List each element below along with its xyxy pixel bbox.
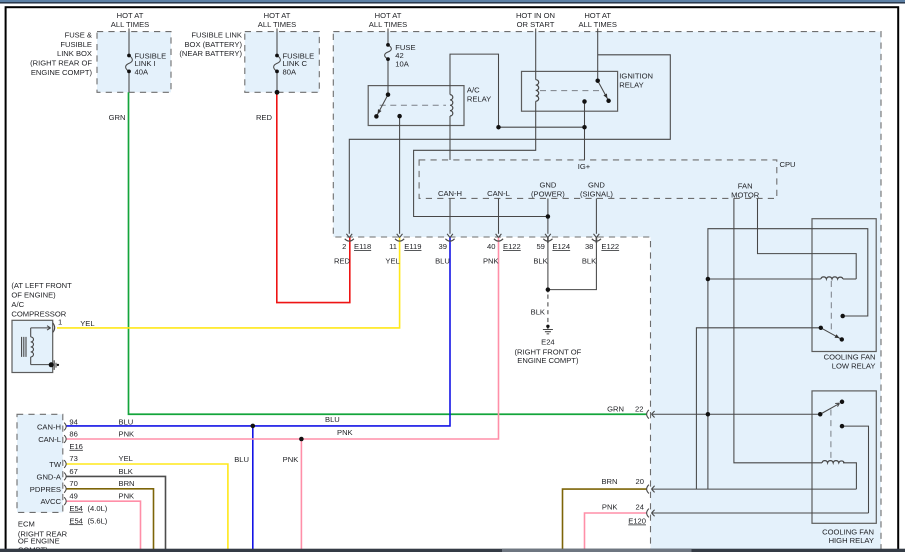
wire: ignition relay contact branch to pin 2 E118 (349, 55, 670, 234)
wire BLU: pin 39 CAN-H to ECM pin 94 (66, 238, 450, 426)
svg-text:HIGH RELAY: HIGH RELAY (829, 536, 874, 545)
svg-text:CAN-L: CAN-L (38, 435, 61, 444)
svg-text:E124: E124 (552, 242, 570, 251)
svg-text:2: 2 (342, 242, 346, 251)
svg-text:YEL: YEL (80, 319, 94, 328)
wire: GND(SIGNAL) from CPU to pin 38 E122 (595, 198, 597, 233)
svg-text:(NEAR BATTERY): (NEAR BATTERY) (179, 49, 242, 58)
A/C compressor pin 1 connector (53, 323, 55, 333)
wire BLK: pin 59 stub (547, 238, 549, 244)
svg-text:CAN-H: CAN-H (37, 423, 61, 432)
svg-text:PNK: PNK (483, 256, 499, 265)
svg-text:E122: E122 (503, 242, 521, 251)
wire YEL: ECM TW 73 drop (66, 464, 228, 549)
svg-text:PNK: PNK (337, 428, 353, 437)
relay box: cooling fan high relay U4 (812, 391, 876, 523)
svg-text:59: 59 (536, 242, 544, 251)
svg-text:PNK: PNK (283, 455, 299, 464)
wire: low relay coil left lead to junction vertical (708, 278, 821, 280)
A/C compressor box (12, 320, 53, 372)
node: IPDM / relay-box dashed region (top box merged with right tall box) (333, 32, 881, 552)
ECM pin arc 94 CAN-H (64, 423, 66, 431)
svg-text:39: 39 (439, 242, 447, 251)
dot: A/C compressor ground pin (49, 362, 54, 367)
wire: hot in on or start feed to ignition relay coil (535, 29, 537, 80)
ECM pin arc 67 GND-A (64, 473, 66, 481)
fusible link C symbol (274, 56, 281, 72)
wire: ignition relay contact output down to IG+ (CPU) (584, 102, 586, 160)
connector arrow pin 40 (494, 234, 503, 241)
svg-text:BLK: BLK (531, 308, 545, 317)
svg-text:FUSIBLE LINK: FUSIBLE LINK (191, 31, 242, 40)
svg-text:IGNITION: IGNITION (619, 72, 653, 81)
svg-text:11: 11 (389, 242, 397, 251)
wire: high relay NO contact to PNK pin 24 row (652, 426, 869, 513)
ECM pin arc 73 TW (64, 460, 66, 468)
cooling fan low relay coil (821, 277, 843, 279)
svg-text:OF ENGINE: OF ENGINE (18, 537, 60, 546)
wire: A/C relay coil bottom down to CPU (449, 116, 451, 160)
wire PNK: CAN-L branch drop (300, 439, 302, 549)
svg-text:PNK: PNK (119, 430, 135, 439)
junction dot: BLK grounds merge (546, 287, 551, 292)
svg-text:HOT AT: HOT AT (584, 11, 611, 20)
svg-text:ALL TIMES: ALL TIMES (578, 20, 616, 29)
svg-text:OF ENGINE): OF ENGINE) (11, 291, 56, 300)
node: ECM dashed box (17, 414, 63, 512)
svg-text:PDPRES: PDPRES (30, 485, 61, 494)
svg-text:GRN: GRN (109, 113, 126, 122)
svg-text:GND: GND (539, 181, 556, 190)
svg-text:FAN: FAN (738, 182, 753, 191)
dashed actuator line: cooling fan high relay (830, 410, 832, 460)
relay box: ignition relay U2 (522, 71, 618, 111)
svg-text:ALL TIMES: ALL TIMES (111, 20, 149, 29)
svg-text:E54: E54 (69, 516, 83, 525)
svg-text:BOX (BATTERY): BOX (BATTERY) (184, 40, 242, 49)
svg-text:MOTOR: MOTOR (731, 190, 760, 199)
svg-text:(5.6L): (5.6L) (88, 516, 108, 525)
wire: hot at all times feed to fuse 42 and to A/C relay contact (387, 29, 389, 95)
wire BRN: riser to pin 20 (563, 489, 647, 549)
svg-text:PNK: PNK (119, 492, 135, 501)
svg-text:BLK: BLK (533, 256, 547, 265)
svg-text:COOLING FAN: COOLING FAN (824, 353, 876, 362)
svg-text:YEL: YEL (385, 256, 399, 265)
svg-text:40A: 40A (135, 67, 149, 76)
svg-text:22: 22 (635, 405, 643, 414)
wire: low relay common to high relay coil right lead (696, 328, 820, 489)
wire PNK: riser to pin 24 E120 (585, 513, 647, 549)
svg-text:BLU: BLU (325, 415, 340, 424)
A/C relay coil (450, 95, 453, 116)
svg-text:E122: E122 (601, 242, 619, 251)
svg-text:ALL TIMES: ALL TIMES (258, 20, 296, 29)
ignition relay coil (536, 80, 539, 102)
svg-text:LINK BOX: LINK BOX (57, 49, 92, 58)
svg-text:20: 20 (636, 477, 644, 486)
svg-text:BRN: BRN (601, 477, 617, 486)
connector arrow pin 11 (395, 234, 404, 241)
svg-text:(RIGHT REAR OF: (RIGHT REAR OF (30, 58, 92, 67)
wire PNK: pin 40 CAN-L to ECM pin 86 (66, 238, 499, 440)
svg-text:YEL: YEL (119, 454, 133, 463)
wire: junction y127 between A/C coil feed and IG+ line (499, 126, 585, 128)
dashed actuator line: ignition relay (540, 90, 600, 92)
cooling fan low relay switch arm (821, 328, 842, 340)
junction dots: fuse 42 (386, 43, 390, 47)
A/C compressor ground pin tick (54, 360, 56, 370)
window top bar (0, 0, 905, 2)
svg-text:HOT AT: HOT AT (117, 11, 144, 20)
wire BLK: ECM GND-A 67 drop (66, 476, 166, 549)
A/C relay switch arm (376, 95, 388, 117)
connector arrow pin 59 (543, 234, 552, 241)
svg-text:GND-A: GND-A (37, 472, 62, 481)
svg-text:OR START: OR START (517, 20, 555, 29)
window bottom bar (0, 549, 905, 552)
ground symbol E24 (543, 326, 553, 334)
svg-text:FUSIBLE: FUSIBLE (60, 40, 92, 49)
connector arrow pin 38 (592, 234, 601, 241)
svg-text:94: 94 (69, 418, 77, 427)
svg-text:A/C: A/C (11, 300, 24, 309)
contact dots: cooling fan low relay (819, 326, 823, 330)
svg-text:ECM: ECM (18, 519, 35, 528)
connector arrow pin 39 (445, 234, 454, 241)
ignition relay switch arm (598, 81, 609, 101)
wire: BLK ground link pin 38 to pin 59 column (548, 237, 597, 293)
svg-text:E118: E118 (354, 242, 371, 251)
svg-text:PNK: PNK (602, 503, 618, 512)
connector arrow pin 22 (647, 410, 655, 419)
relay box: A/C relay U1 (368, 86, 464, 126)
wire: FAN MOTOR output 2 from CPU to low relay coil (758, 198, 857, 279)
node: hot-at-all-times feed box (fuse & fusible link box, right rear of engine compt) (97, 32, 171, 93)
svg-text:LOW RELAY: LOW RELAY (832, 362, 876, 371)
svg-text:86: 86 (69, 430, 77, 439)
wire: hot at all times feed to ignition relay contact (597, 29, 599, 81)
wire YEL: pin 11 E119 to A/C compressor pin 1 (57, 238, 400, 328)
svg-text:(POWER): (POWER) (531, 190, 565, 199)
svg-text:BLU: BLU (234, 455, 249, 464)
wire: GRN pin 22 row inside box to high relay common (652, 413, 821, 415)
svg-text:38: 38 (585, 242, 593, 251)
wire: A/C relay NO contact down to pin 11 E119 (399, 116, 401, 234)
svg-text:ENGINE COMPT): ENGINE COMPT) (517, 356, 579, 365)
svg-text:GND: GND (588, 181, 605, 190)
svg-text:FUSE &: FUSE & (65, 31, 92, 40)
wire: high relay coil right lead down to BRN row (843, 463, 856, 489)
A/C compressor clutch coil (31, 337, 34, 357)
svg-text:10A: 10A (395, 59, 409, 68)
junction dots: fusible link C (275, 54, 279, 58)
junction dots: low relay circuit (706, 277, 711, 282)
svg-text:E16: E16 (69, 442, 83, 451)
svg-text:(SIGNAL): (SIGNAL) (580, 190, 613, 199)
svg-text:1: 1 (58, 318, 62, 327)
svg-text:RED: RED (256, 113, 273, 122)
svg-text:BLU: BLU (119, 418, 134, 427)
dashed actuator line: cooling fan low relay (830, 281, 832, 333)
junction dots: fusible link I (127, 54, 131, 58)
svg-text:BLK: BLK (582, 256, 596, 265)
svg-text:HOT IN ON: HOT IN ON (516, 11, 555, 20)
junction dots: IG+ / A/C coil feed (496, 125, 501, 130)
wire: hot at all times feed into fusible link I (128, 29, 130, 93)
wire BLU: CAN-H branch drop (252, 426, 254, 549)
wire: CAN-H from CPU to pin 39 (449, 198, 451, 233)
svg-text:RELAY: RELAY (619, 81, 643, 90)
connector arrow pin 24 (647, 509, 655, 518)
svg-text:E119: E119 (404, 242, 421, 251)
svg-text:80A: 80A (283, 67, 297, 76)
wire RED: fusible link C to pin 2 E118 (277, 92, 350, 302)
wire: BLK dashed drop to ground E24 (547, 295, 549, 325)
node: fusible link box (battery) (245, 32, 319, 93)
svg-text:GRN: GRN (607, 405, 624, 414)
wire GRN: fusible link I to pin 22 cooling fan circuit (129, 92, 647, 414)
svg-text:A/C: A/C (467, 86, 480, 95)
svg-text:40: 40 (487, 242, 495, 251)
svg-text:CPU: CPU (780, 160, 796, 169)
wire: ignition relay coil ground to GND(POWER) (414, 101, 548, 216)
wire: GND(POWER) from CPU to pin 59 E124 (547, 198, 549, 233)
wire: FAN MOTOR output 1 from CPU to high relay coil (734, 198, 822, 462)
connector arrow pin 20 (647, 485, 655, 494)
wire: A/C compressor clutch coil leads (31, 326, 51, 365)
wire: CAN-L from CPU to pin 40 E122 (498, 198, 500, 233)
svg-text:BLK: BLK (119, 467, 133, 476)
wire: low relay coil right lead (843, 278, 856, 280)
svg-text:E54: E54 (69, 504, 83, 513)
wire: A/C relay coil top to CAN-L column junction (450, 54, 499, 127)
fusible link I symbol (126, 56, 133, 72)
contact dots: cooling fan high relay (818, 412, 823, 417)
dashed actuator line: A/C relay (380, 104, 446, 106)
ECM pin arc 70 PDPRES (64, 485, 66, 493)
svg-text:BLU: BLU (435, 256, 450, 265)
cooling fan high relay coil (822, 461, 844, 463)
cooling fan high relay switch arm with arrowhead (820, 403, 839, 414)
junction dot: ignition coil ground on GND(POWER) (546, 214, 551, 219)
wire BLK: pin 38 stub (595, 238, 597, 244)
wire: low relay NO contact loop to junction vertical (708, 229, 868, 489)
contact dots: A/C relay (386, 92, 391, 97)
junction dot: PNK CAN-L branch (299, 437, 304, 442)
A/C compressor coil core bars (22, 337, 26, 357)
svg-text:49: 49 (69, 492, 77, 501)
connector arrow pin 2 (345, 234, 354, 241)
svg-text:AVCC: AVCC (40, 497, 61, 506)
svg-text:67: 67 (69, 467, 77, 476)
svg-text:TW: TW (49, 460, 62, 469)
svg-text:HOT AT: HOT AT (264, 11, 291, 20)
fuse 42 10A symbol (385, 45, 392, 59)
wire: hot at all times feed into fusible link C (276, 29, 278, 93)
svg-text:ENGINE COMPT): ENGINE COMPT) (31, 68, 93, 77)
svg-text:73: 73 (69, 454, 77, 463)
ECM pin arc 86 CAN-L (64, 435, 66, 443)
svg-text:(4.0L): (4.0L) (88, 504, 108, 513)
svg-text:CAN-H: CAN-H (438, 189, 462, 198)
node: CPU dashed box (419, 160, 777, 199)
contact dots: ignition relay (595, 78, 600, 83)
svg-text:RELAY: RELAY (467, 95, 491, 104)
svg-text:70: 70 (69, 479, 77, 488)
svg-text:ALL TIMES: ALL TIMES (369, 20, 407, 29)
wire PNK: ECM AVCC 49 drop (66, 501, 141, 549)
svg-text:E120: E120 (628, 517, 646, 526)
svg-text:CAN-L: CAN-L (487, 189, 510, 198)
svg-text:IG+: IG+ (578, 162, 591, 171)
svg-text:24: 24 (636, 503, 644, 512)
relay box: cooling fan low relay U3 (812, 219, 876, 352)
wire BRN: ECM PDPRES 70 drop (66, 489, 154, 549)
svg-text:HOT AT: HOT AT (375, 11, 402, 20)
junction dot: BLU CAN-H branch (251, 424, 256, 429)
svg-text:(AT LEFT FRONT: (AT LEFT FRONT (11, 281, 72, 290)
svg-text:RED: RED (334, 256, 351, 265)
wire: BRN pin 20 row inside box (652, 488, 857, 490)
ECM pin arc 49 AVCC (64, 497, 66, 505)
junction dot: ground E24 top (546, 325, 549, 328)
svg-text:BRN: BRN (119, 479, 135, 488)
svg-text:E24: E24 (541, 337, 555, 346)
